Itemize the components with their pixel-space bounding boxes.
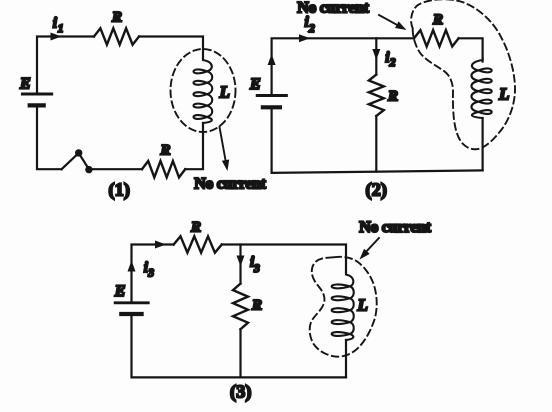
svg-text:R: R (251, 298, 262, 314)
resistor R (circuit 1, top) (94, 28, 139, 44)
current arrow i2 right (circuit 2 top wire) (299, 34, 310, 42)
svg-text:E: E (114, 283, 126, 300)
svg-text:No current: No current (359, 219, 431, 236)
svg-text:R: R (387, 89, 398, 105)
wire: circuit 2 left + top (272, 38, 414, 95)
wire: circuit 1 bottom left + left side up to battery (37, 105, 62, 169)
inductor L (circuit 2) (471, 58, 491, 118)
svg-text:1: 1 (58, 23, 64, 35)
switch (open, circuit 1 bottom) (62, 153, 89, 169)
annotation arrow from No current (circuit 3) (364, 238, 379, 254)
wire: circuit 2 left below battery + bottom (272, 107, 483, 173)
wire: circuit 1 right side below inductor + bottom to resistor (185, 123, 203, 169)
dashed ellipse around L (circuit 1) (171, 49, 236, 132)
svg-text:L: L (357, 296, 368, 315)
battery E (circuit 2) (257, 94, 286, 97)
wire: circuit 3 left below battery + bottom (132, 314, 347, 377)
inductor L (circuit 3) (332, 273, 354, 341)
resistor R (circuit 2, middle) (369, 75, 384, 116)
svg-text:E: E (249, 76, 261, 93)
resistor R (circuit 1, bottom) (142, 161, 185, 177)
wire: switch right dot to bottom resistor (89, 168, 142, 170)
wire: circuit 3 right below inductor (345, 340, 347, 377)
wire: circuit 2 middle branch top (375, 38, 377, 74)
wire: circuit 2 top right corner down to inductor (459, 38, 483, 61)
dashed loop around R and L (circuit 2) (411, 0, 515, 149)
svg-text:R: R (190, 219, 201, 235)
svg-text:(3): (3) (230, 381, 252, 402)
dashed bean loop around L (circuit 3) (310, 257, 377, 357)
resistor R (circuit 2, top right) (414, 30, 459, 46)
svg-text:2: 2 (308, 23, 315, 35)
wire: circuit 3 middle branch top (239, 245, 241, 284)
wire: circuit 3 left + top to resistor (132, 245, 174, 303)
resistor R (circuit 3, middle) (233, 284, 248, 330)
annotation arrow to No current (circuit 1) (220, 127, 227, 165)
battery E (circuit 1) (22, 93, 51, 96)
current arrow i3 right (circuit 3 top wire) (155, 241, 166, 249)
resistor R (circuit 3, top) (174, 236, 222, 252)
svg-text:E: E (19, 76, 31, 93)
svg-text:(1): (1) (109, 180, 131, 201)
svg-text:3: 3 (253, 263, 260, 275)
svg-text:No current: No current (194, 176, 266, 193)
current arrow i1 (points right on top wire) (51, 33, 62, 41)
annotation arrow from No current (circuit 2) (379, 15, 399, 26)
svg-text:3: 3 (147, 268, 154, 280)
svg-text:R: R (160, 143, 171, 159)
wire: circuit 2 middle branch bottom (375, 116, 377, 172)
svg-text:No current: No current (297, 0, 369, 17)
wire: circuit 3 top from resistor to right corner (222, 245, 346, 273)
current arrow i3 down (middle branch) (237, 256, 245, 267)
svg-text:2: 2 (389, 57, 396, 69)
battery E (circuit 3) (115, 301, 148, 304)
wire: circuit 3 middle branch bottom (239, 329, 241, 377)
svg-text:R: R (432, 12, 443, 28)
wire: circuit 1 left + top segment to resistor (37, 37, 94, 95)
current arrow up (circuit 2 left wire) (268, 54, 276, 65)
svg-text:L: L (498, 85, 509, 104)
wire: circuit 1 top right corner down to inductor (139, 37, 203, 58)
svg-text:(2): (2) (366, 180, 388, 201)
inductor L (circuit 1) (194, 58, 213, 123)
wire: circuit 2 right below inductor (482, 118, 484, 170)
svg-text:R: R (111, 10, 122, 26)
current arrow up (circuit 3 left wire) (128, 261, 136, 272)
current arrow i2 down (middle branch) (372, 49, 380, 60)
svg-text:L: L (219, 83, 230, 102)
